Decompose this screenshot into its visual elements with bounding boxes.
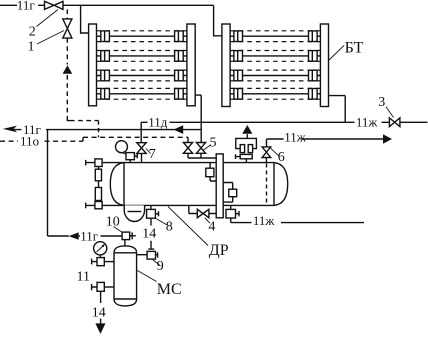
label 9 leader	[153, 260, 160, 266]
label 3 leader	[386, 107, 393, 118]
svg-text:3: 3	[378, 95, 385, 110]
valve 7	[137, 143, 146, 163]
exchanger 2 tube row 4	[230, 88, 320, 99]
heat exchanger bank 2 right header	[320, 24, 328, 107]
wire dashed impulse from valve 1	[67, 9, 98, 137]
component 10 box	[122, 232, 136, 246]
exchanger 1 tubes and shells	[97, 31, 187, 99]
heat exchanger bank 1 right header	[187, 24, 195, 106]
drum DR shell	[110, 163, 287, 206]
drain pot under drum	[124, 205, 144, 221]
label 6 leader	[270, 148, 279, 156]
svg-text:4: 4	[208, 220, 215, 235]
label 5 leader	[203, 145, 211, 151]
exchanger 2 tubes and shells	[230, 31, 320, 99]
level gauge glass assembly	[95, 159, 102, 209]
flow arrow up on impulse line	[63, 65, 73, 74]
vessel MS shell	[114, 246, 137, 306]
label 1 leader	[37, 31, 64, 45]
drum top instrument box	[126, 153, 137, 163]
component 11 lower box	[92, 282, 114, 291]
flow arrow left to 11g	[69, 232, 79, 239]
svg-text:2: 2	[29, 24, 36, 39]
svg-text:1: 1	[28, 39, 35, 54]
svg-text:10: 10	[106, 215, 120, 230]
svg-text:11г: 11г	[17, 0, 35, 13]
wire dashed 11o line	[0, 137, 188, 142]
valve 1	[63, 19, 72, 38]
flow arrow right 11zh	[383, 134, 392, 143]
valve 5 pair	[183, 143, 216, 159]
component 11 upper box	[92, 258, 114, 266]
relief valve assembly	[236, 134, 257, 162]
wire drum bottom to valve 4	[189, 205, 216, 213]
label 2 leader	[37, 10, 59, 27]
exchanger 1 tube row 1	[97, 31, 187, 42]
label MS leader	[137, 271, 156, 282]
svg-text:7: 7	[149, 147, 156, 162]
svg-text:14: 14	[92, 305, 106, 320]
valve 6 riser and 11zh arrow line	[267, 139, 384, 147]
svg-text:11ж: 11ж	[284, 129, 307, 144]
exchanger 2 tube row 1	[230, 31, 320, 42]
drum dip tube dashed	[266, 164, 268, 205]
valve 3	[389, 118, 400, 127]
valve 6	[262, 147, 271, 163]
valve 4	[197, 209, 209, 217]
exchanger 2 tube row 3	[230, 70, 320, 81]
svg-text:5: 5	[210, 136, 217, 151]
flow arrow left on return line	[174, 125, 184, 134]
wire 11zh bottom line	[281, 222, 364, 224]
svg-text:14: 14	[142, 226, 156, 241]
wire top header 11g	[0, 4, 214, 6]
heat exchanger bank 2 left header	[222, 24, 230, 107]
svg-text:11ж: 11ж	[253, 213, 276, 228]
wire elbow into exchanger 2	[214, 5, 222, 36]
wire 11d / 11zh header line	[141, 121, 427, 123]
label 10 leader	[114, 227, 123, 233]
flow arrow up to relief vent	[242, 125, 252, 134]
wire elbow into exchanger 1	[81, 5, 89, 33]
svg-text:9: 9	[157, 259, 164, 274]
wire branch down to MS	[48, 130, 123, 236]
label BT leader	[329, 45, 345, 60]
wire nozzle 8 down to component 9	[148, 218, 154, 249]
exchanger 1 tube row 2	[97, 51, 187, 62]
level gauge lines left of drum	[86, 160, 124, 208]
wire MS drain down	[100, 291, 102, 303]
manometer on MS	[94, 242, 107, 258]
flow arrow down at bottom	[95, 319, 105, 334]
exchanger 2 tube row 2	[230, 51, 320, 62]
exchanger 1 tube row 3	[97, 70, 187, 81]
svg-text:МС: МС	[157, 281, 182, 298]
svg-text:11г: 11г	[80, 229, 98, 244]
svg-text:ДР: ДР	[209, 242, 229, 259]
wire exchanger 2 outlet	[329, 96, 346, 123]
valve 2	[45, 1, 64, 9]
component 9 box	[137, 251, 158, 259]
label 8 leader	[156, 218, 167, 225]
svg-text:11: 11	[77, 270, 90, 285]
pressure gauge on drum	[116, 141, 128, 155]
label 4 leader	[205, 218, 210, 223]
svg-text:11ж: 11ж	[356, 114, 379, 129]
label DR leader	[168, 207, 208, 246]
exchanger 1 tube row 4	[97, 88, 187, 99]
nozzle 8	[147, 205, 159, 218]
arrow 11g exit left	[3, 126, 17, 133]
heat exchanger bank 1 left header	[89, 24, 97, 106]
column standpipe on drum	[216, 154, 223, 218]
svg-text:11д: 11д	[148, 114, 168, 129]
wire exchanger 1 outlet	[195, 95, 201, 142]
svg-text:БТ: БТ	[345, 39, 364, 56]
nozzle to 11zh bottom	[226, 205, 252, 222]
svg-text:11о: 11о	[20, 134, 39, 149]
label 7 leader	[146, 149, 151, 154]
wire return line 11g	[14, 129, 201, 131]
float box right of column	[223, 183, 237, 203]
svg-text:8: 8	[166, 220, 173, 235]
svg-text:6: 6	[278, 150, 285, 165]
instrument box left of column	[206, 163, 216, 181]
wire 11d corner down to valve 7	[140, 122, 142, 142]
